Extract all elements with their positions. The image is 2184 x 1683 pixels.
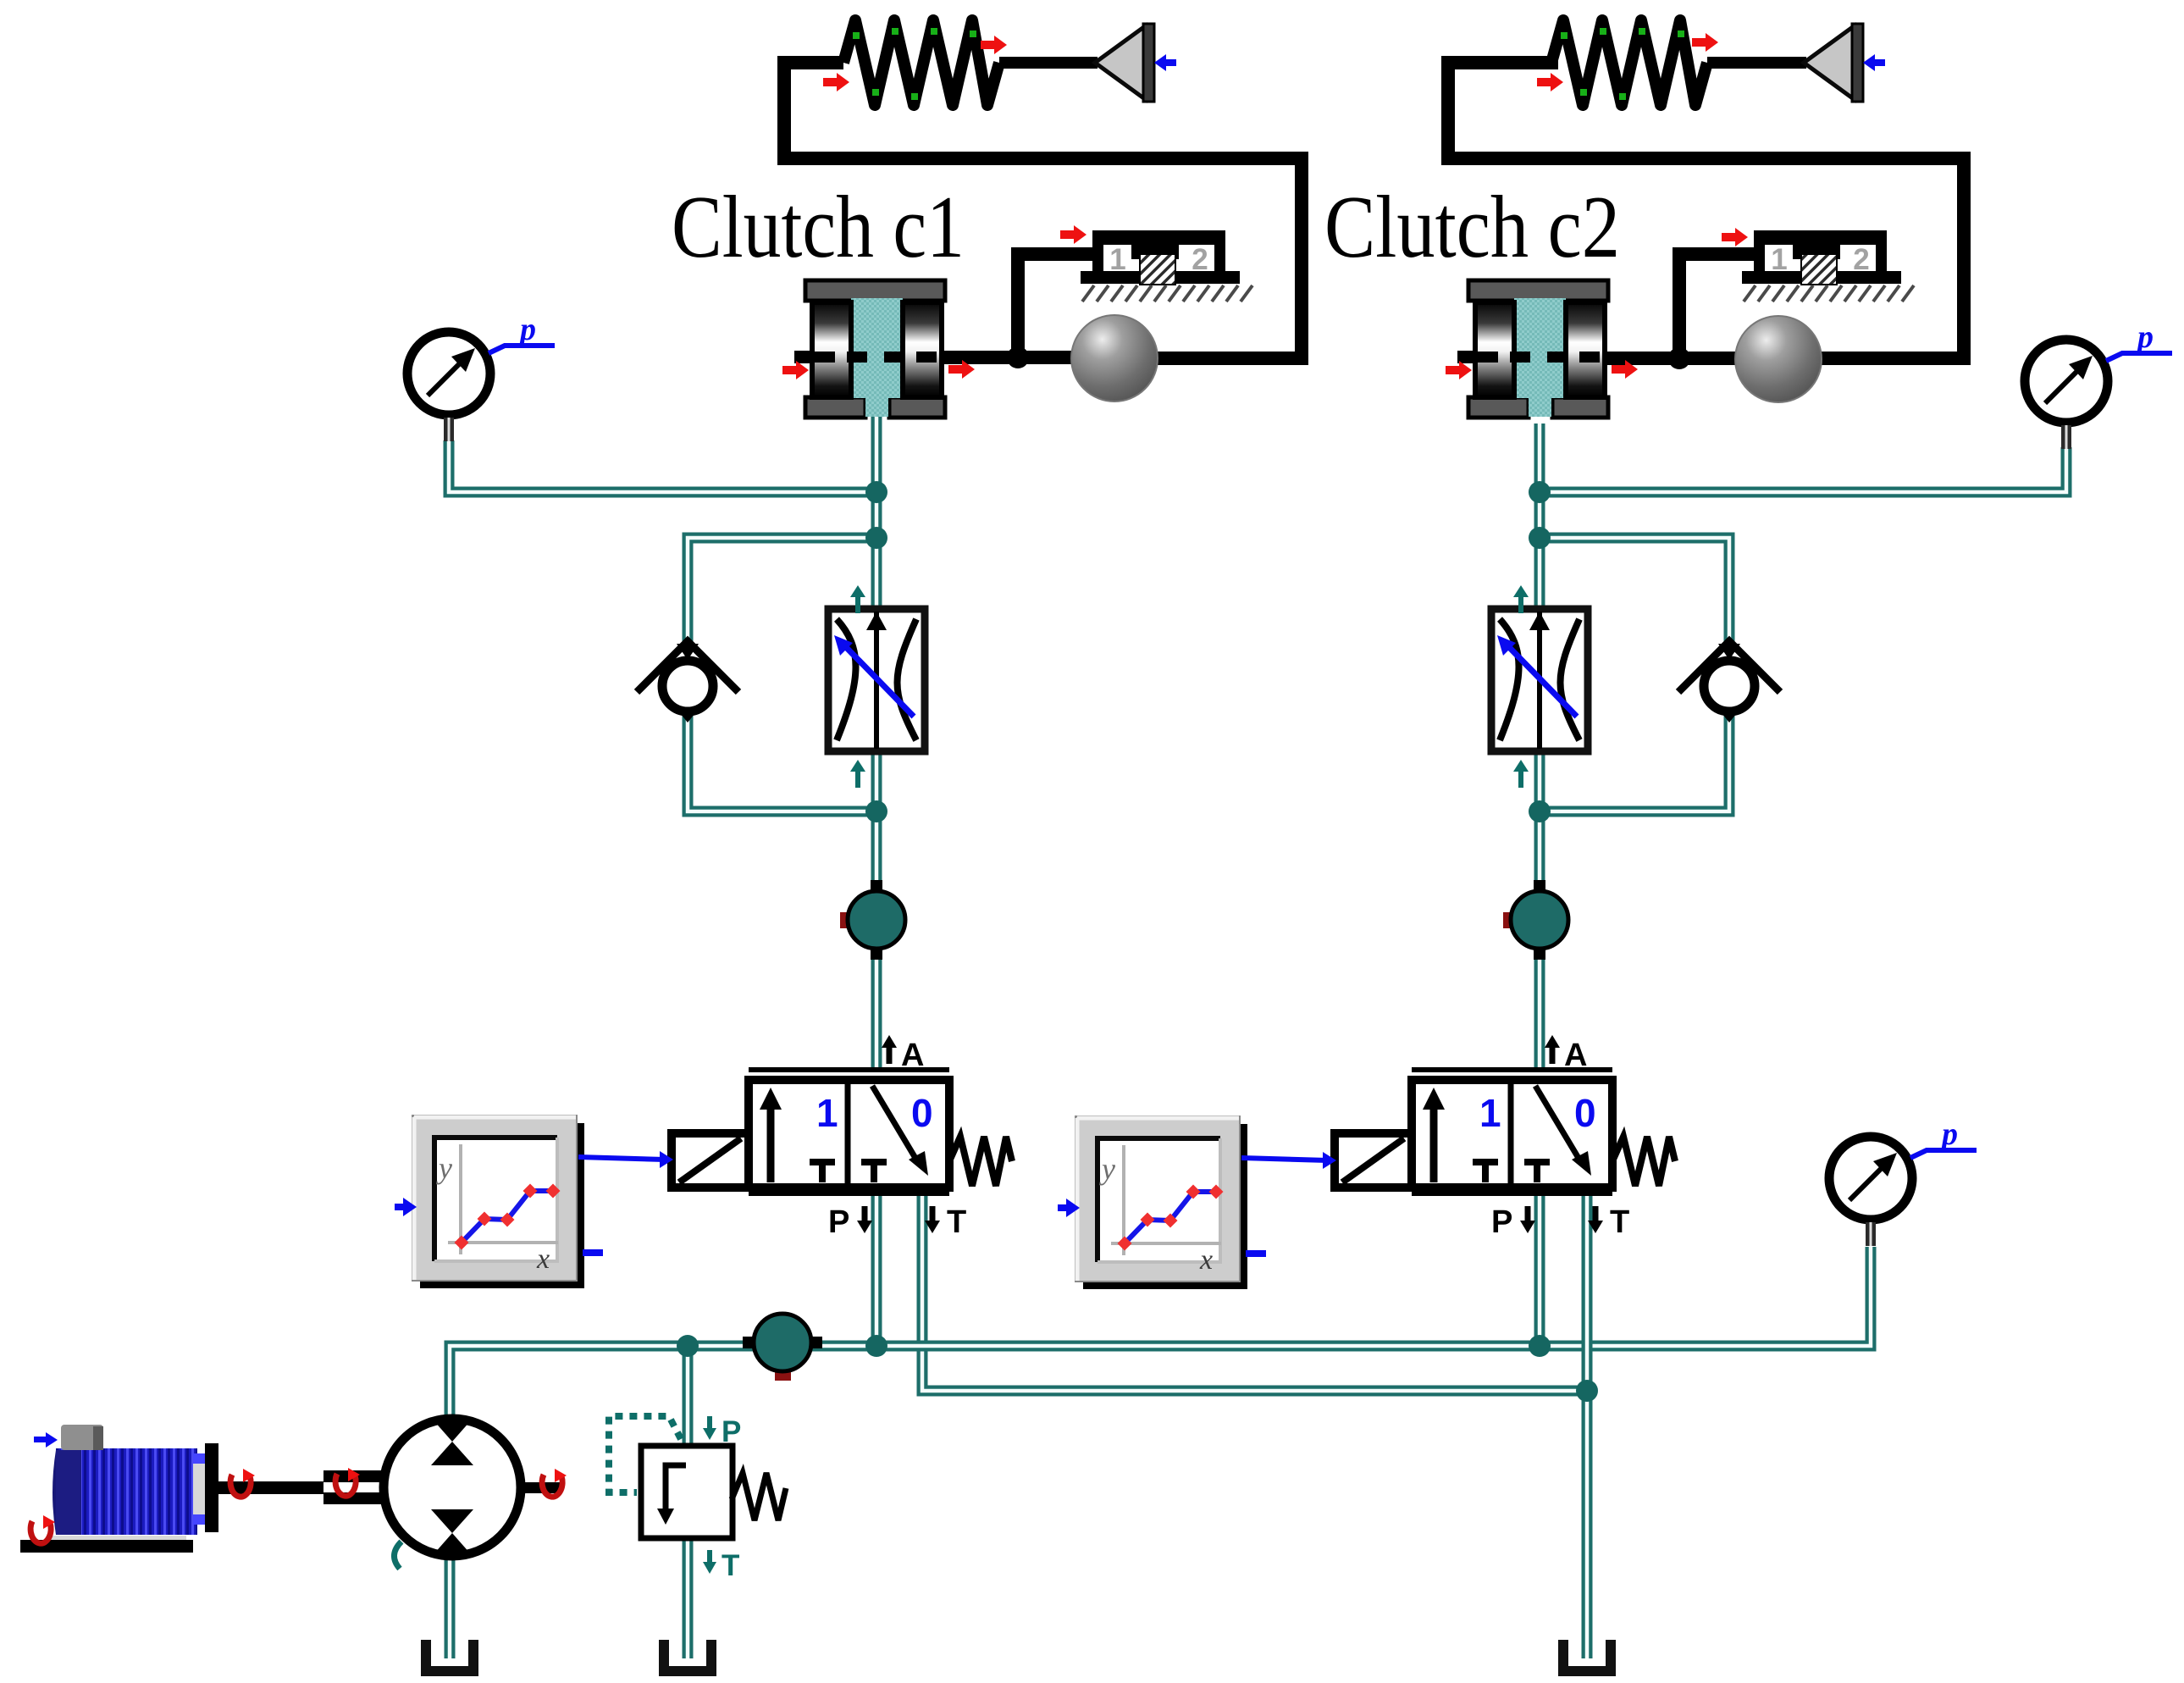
svg-text:1: 1 <box>816 1091 838 1135</box>
svg-text:x: x <box>536 1243 550 1275</box>
signal source XY1 (piecewise-linear signal source) <box>412 1116 584 1288</box>
node A1-bypass upper junction <box>865 527 887 549</box>
svg-text:0: 0 <box>1574 1091 1596 1135</box>
wire clutch c1 feedback loop (mechanical shaft) <box>784 63 1302 358</box>
wire pump suction line (hydraulic pipe) <box>445 1558 456 1658</box>
pin T of relief valve RV1 <box>703 1549 739 1582</box>
node A2-gauge junction <box>1529 481 1551 503</box>
wire clutch c1 actuator line A1 (hydraulic pipe) <box>871 416 882 1071</box>
svg-text:T: T <box>947 1204 966 1240</box>
wire valve DV1 tank line (hydraulic pipe) <box>922 1194 1587 1391</box>
svg-text:2: 2 <box>1192 243 1208 276</box>
node A1-bypass lower junction <box>865 800 887 822</box>
node shaft joint 1 <box>1007 346 1029 368</box>
signal output stub of XY2 <box>1246 1250 1266 1257</box>
pin P of valve DV1 <box>828 1204 872 1240</box>
pump P1 (hydraulic pump) <box>384 1419 561 1569</box>
rotation arrow at motor shaft <box>230 1469 255 1497</box>
node p (gauge PG2 pressure signal) <box>2106 319 2172 361</box>
svg-text:P: P <box>1491 1204 1512 1240</box>
wire valve DV1 pressure port line (hydraulic pipe) <box>871 1194 882 1346</box>
svg-text:1: 1 <box>1479 1091 1501 1135</box>
coupler K1 (shaft coupling) <box>323 1470 384 1504</box>
lower flow arrow of throttle VO2 <box>1513 760 1529 788</box>
fixture F2 (rotational fixture, pins 1 and 2) <box>1742 230 1914 302</box>
flow arrow below spring sd1 <box>823 73 849 91</box>
svg-text:T: T <box>722 1549 739 1582</box>
valve DV2 (3/2 directional control valve) <box>1412 1070 1612 1193</box>
wire spring sd2 to sensor link (mechanical shaft) <box>1707 57 1806 69</box>
node A1-gauge junction <box>865 481 887 503</box>
tank T1 (tank / reservoir) <box>426 1640 473 1671</box>
spring sd1 (spring-damper) <box>843 20 999 105</box>
svg-text:Clutch c2: Clutch c2 <box>1324 177 1620 276</box>
wire clutch c2 output shaft (mechanical shaft) <box>1606 352 1739 365</box>
pin P of relief valve RV1 <box>703 1415 741 1448</box>
wire clutch c2 feedback loop (mechanical shaft) <box>1448 63 1964 358</box>
gauge PG1 (pressure gauge) <box>407 332 490 441</box>
node relief supply junction <box>677 1335 699 1357</box>
node P2 supply junction <box>1529 1335 1551 1357</box>
svg-text:y: y <box>1099 1152 1115 1186</box>
svg-text:0: 0 <box>911 1091 933 1135</box>
wire clutch c1 output shaft (mechanical shaft) <box>942 351 1075 364</box>
flow arrow below spring sd2 <box>1537 73 1563 91</box>
node tank line junction <box>1576 1380 1598 1402</box>
svg-text:1: 1 <box>1109 243 1125 276</box>
gauge PG2 (pressure gauge) <box>2025 340 2108 449</box>
tank T2 (tank / reservoir) <box>664 1640 711 1671</box>
wire relief valve RV1 return (hydraulic pipe) <box>683 1536 694 1658</box>
lower flow arrow of throttle VO1 <box>850 760 865 788</box>
node shaft joint 2 <box>1668 347 1690 369</box>
wire check valve CV2 upper branch (hydraulic pipe) <box>1540 538 1729 644</box>
signal input arrow of XY1 <box>395 1198 417 1216</box>
upper flow arrow of throttle VO1 <box>850 585 865 613</box>
solenoid of valve DV2 <box>1335 1133 1412 1188</box>
speed sensor w1 (rotary load / velocity end) <box>1095 24 1176 102</box>
spring sd2 (spring-damper) <box>1551 20 1707 105</box>
pin P of valve DV2 <box>1491 1204 1535 1240</box>
clutch c1 (friction clutch) <box>794 280 945 418</box>
solenoid of valve DV1 <box>672 1133 749 1188</box>
wire clutch c1 fixture link (mechanical shaft) <box>1018 254 1094 357</box>
clutch c2 input flow arrow <box>1446 361 1472 379</box>
clutch c2 (friction clutch) <box>1457 280 1608 418</box>
svg-text:y: y <box>436 1151 452 1185</box>
svg-text:p: p <box>517 312 536 347</box>
svg-text:A: A <box>901 1038 924 1073</box>
wire valve DV2 pressure port line (hydraulic pipe) <box>1534 1196 1545 1346</box>
inertia J1 (rotary inertia mass) <box>1071 315 1158 401</box>
wire spring sd1 to sensor link (mechanical shaft) <box>999 57 1098 69</box>
clutch c2 output flow arrow <box>1612 360 1638 379</box>
wire check valve CV1 lower branch (hydraulic pipe) <box>688 714 876 811</box>
signal input arrow of motor M1 <box>34 1432 58 1448</box>
check valve CV1 (check valve) <box>637 641 738 722</box>
throttle VO1 (variable orifice throttle) <box>828 609 925 751</box>
wire relief valve RV1 inlet (hydraulic pipe) <box>683 1346 694 1448</box>
wire pump supply line (hydraulic pipe) <box>450 1247 1871 1416</box>
node p (gauge PG3 pressure signal) <box>1910 1116 1977 1158</box>
wire gauge PG2 to node A2 (hydraulic pipe) <box>1545 447 2066 492</box>
wire gauge PG1 to node A1 (hydraulic pipe) <box>449 440 871 492</box>
motor M1 (electric motor) <box>20 1425 218 1553</box>
rotation arrow at pump shaft <box>542 1469 567 1497</box>
svg-text:Clutch c1: Clutch c1 <box>672 177 965 276</box>
signal source XY2 (piecewise-linear signal source) <box>1075 1116 1247 1289</box>
speed sensor w2 (rotary load / velocity end) <box>1804 24 1885 102</box>
wire check valve CV2 lower branch (hydraulic pipe) <box>1540 714 1729 811</box>
wire valve DV2 tank line (hydraulic pipe) <box>1582 1196 1593 1658</box>
volume V3 (hydraulic volume node) <box>1503 880 1568 960</box>
tank T3 (tank / reservoir) <box>1563 1640 1611 1671</box>
rotation arrow at motor base <box>30 1515 55 1543</box>
flow arrow at fixture F1 <box>1060 225 1086 244</box>
flow arrow above spring sd2 <box>1692 33 1718 52</box>
fixture F1 (rotational fixture, pins 1 and 2) <box>1081 230 1252 302</box>
pin A of valve DV1 <box>882 1035 924 1073</box>
pin A of valve DV2 <box>1545 1035 1587 1073</box>
pin T of valve DV1 <box>925 1204 966 1240</box>
svg-text:P: P <box>828 1204 849 1240</box>
relief valve RV1 (pressure relief valve) <box>641 1446 733 1538</box>
svg-text:T: T <box>1610 1204 1629 1240</box>
node p (gauge PG1 pressure signal) <box>489 312 555 353</box>
svg-text:2: 2 <box>1853 243 1869 276</box>
spring of relief valve RV1 <box>732 1473 786 1520</box>
svg-text:p: p <box>1939 1116 1958 1152</box>
wire motor shaft <box>218 1481 323 1494</box>
signal wire XY1 to DV1 solenoid <box>578 1151 673 1168</box>
inertia J2 (rotary inertia mass) <box>1735 316 1822 402</box>
signal wire XY2 to DV2 solenoid <box>1241 1152 1336 1169</box>
flow arrow at fixture F2 <box>1722 228 1748 246</box>
svg-text:A: A <box>1564 1038 1587 1073</box>
clutch c1 output flow arrow <box>948 360 975 379</box>
node P1 supply junction <box>865 1335 887 1357</box>
volume V2 (hydraulic volume node) <box>743 1314 822 1381</box>
node A2-bypass upper junction <box>1529 527 1551 549</box>
svg-text:P: P <box>722 1415 741 1448</box>
pin T of valve DV2 <box>1588 1204 1629 1240</box>
wire clutch c2 actuator line A2 (hydraulic pipe) <box>1534 424 1545 1071</box>
throttle VO2 (variable orifice throttle) <box>1491 609 1588 751</box>
upper flow arrow of throttle VO2 <box>1513 585 1529 613</box>
return spring of valve DV1 <box>949 1137 1012 1186</box>
svg-text:1: 1 <box>1771 243 1787 276</box>
flow arrow above spring sd1 <box>981 36 1007 54</box>
svg-text:p: p <box>2135 319 2154 355</box>
return spring of valve DV2 <box>1612 1137 1675 1186</box>
node A2-bypass lower junction <box>1529 800 1551 822</box>
signal input arrow of XY2 <box>1058 1199 1080 1217</box>
rotation arrow at coupler <box>335 1468 360 1496</box>
gauge PG3 (pressure gauge) <box>1829 1137 1912 1246</box>
wire clutch c2 fixture link (mechanical shaft) <box>1679 254 1755 358</box>
volume V1 (hydraulic volume node) <box>840 880 905 960</box>
clutch c1 input flow arrow <box>782 361 809 379</box>
check valve CV2 (check valve) <box>1678 641 1780 722</box>
pilot line of relief valve RV1 <box>609 1416 681 1492</box>
wire check valve CV1 upper branch (hydraulic pipe) <box>688 538 876 644</box>
signal output stub of XY1 <box>583 1249 603 1256</box>
valve DV1 (3/2 directional control valve) <box>749 1070 949 1193</box>
svg-text:x: x <box>1199 1244 1213 1276</box>
